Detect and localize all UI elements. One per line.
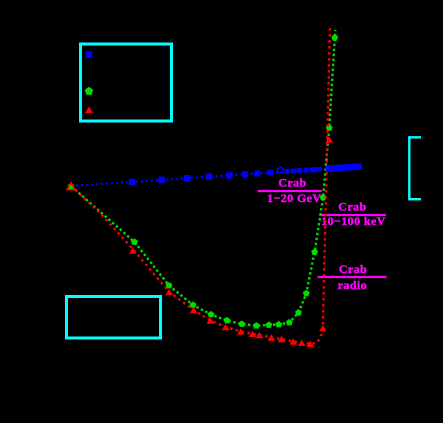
- blue open pentagon marker: [277, 167, 284, 173]
- legend red triangle: [85, 106, 93, 113]
- svg-text:radio: radio: [338, 278, 367, 292]
- blue solid end bar (overlapping markers): [326, 164, 362, 172]
- start point: open red triangle: [67, 183, 75, 190]
- annotation: Crab 1-20 GeV flux level: [258, 176, 322, 205]
- blue curve dotted line: [71, 167, 361, 187]
- green pentagon markers: [131, 34, 338, 329]
- red triangle markers: [129, 136, 333, 347]
- right cyan bracket: [409, 137, 421, 199]
- svg-text:Crab: Crab: [339, 262, 367, 276]
- lower-left cyan box: [67, 297, 161, 339]
- svg-text:Crab: Crab: [338, 200, 366, 214]
- start point: green pentagon: [68, 183, 75, 190]
- legend green pentagon: [85, 87, 93, 95]
- blue square markers: [129, 167, 322, 185]
- svg-text:10−100 keV: 10−100 keV: [321, 214, 386, 228]
- green curve dotted line: [71, 30, 335, 326]
- legend box: [81, 44, 172, 121]
- annotation: Crab 10-100 keV flux level: [320, 200, 387, 229]
- svg-text:1−20 GeV: 1−20 GeV: [267, 191, 321, 205]
- red curve dotted line: [71, 28, 330, 344]
- annotation: Crab radio flux level: [318, 262, 387, 292]
- svg-text:Crab: Crab: [278, 176, 306, 190]
- legend blue square: [86, 51, 93, 58]
